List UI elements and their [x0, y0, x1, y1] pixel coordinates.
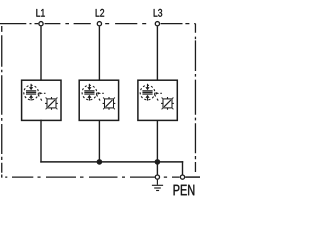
wire SPD1 to bus — [40, 120, 42, 161]
spark gap symbol SPD1 — [24, 84, 46, 103]
wire PEN conductor — [185, 176, 200, 178]
boundary bottom dash-dot line — [0, 176, 180, 178]
SPD F1 box — [22, 80, 61, 120]
wire L1 to SPD1 — [40, 26, 42, 80]
ground symbol — [152, 180, 163, 191]
boundary right dash-dot line — [194, 24, 196, 172]
label L1 — [36, 9, 44, 17]
boundary left dash-dot line — [1, 26, 3, 177]
junction dot bus-L2 — [97, 159, 103, 165]
SPD F3 box — [138, 80, 177, 120]
spark gap symbol SPD2 — [82, 84, 104, 103]
node L1 terminal circle — [39, 22, 43, 26]
spark gap symbol SPD3 — [140, 84, 162, 103]
SPD F2 box — [79, 80, 118, 120]
label L2 — [96, 9, 104, 17]
disconnector symbol SPD1 — [45, 97, 58, 110]
earth terminal circle — [155, 175, 159, 179]
equipotential bus wire — [41, 161, 183, 163]
disconnector symbol SPD2 — [103, 97, 116, 110]
node L3 terminal circle — [155, 22, 159, 26]
boundary top dash-dot line — [0, 23, 196, 25]
label PEN — [174, 185, 195, 196]
wire L3 to SPD3 — [156, 26, 158, 80]
disconnector symbol SPD3 — [161, 97, 174, 110]
wire L2 to SPD2 — [98, 26, 100, 80]
wire bus to PEN terminal — [182, 162, 184, 175]
wire SPD2 to bus — [98, 120, 100, 161]
label L3 — [154, 9, 162, 17]
PEN terminal circle — [180, 175, 184, 179]
wire SPD3 to bus and earth terminal — [156, 120, 158, 174]
node L2 terminal circle — [97, 22, 101, 26]
junction dot bus-L3 — [155, 159, 161, 165]
